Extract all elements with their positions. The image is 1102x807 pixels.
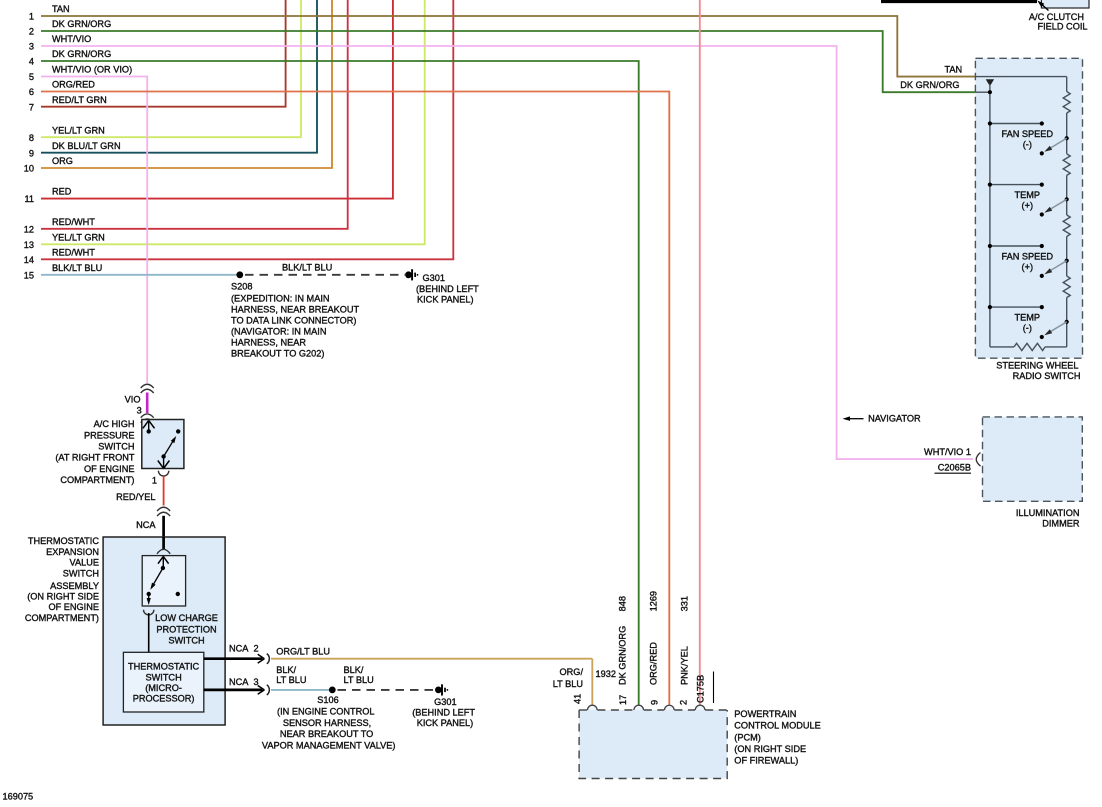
svg-text:YEL/LT GRN: YEL/LT GRN [52,232,105,242]
svg-text:FIELD COIL: FIELD COIL [1037,22,1087,32]
svg-text:169075: 169075 [3,792,34,802]
svg-text:DK GRN/ORG: DK GRN/ORG [52,19,111,29]
svg-text:RED/YEL: RED/YEL [116,492,155,502]
svg-text:NAVIGATOR: NAVIGATOR [868,413,921,423]
svg-text:KICK PANEL): KICK PANEL) [417,295,474,305]
svg-text:BLK/LT BLU: BLK/LT BLU [282,263,332,273]
svg-text:TAN: TAN [945,64,963,74]
svg-text:12: 12 [24,224,34,234]
svg-text:A/C CLUTCH: A/C CLUTCH [1029,12,1084,22]
svg-text:(MICRO-: (MICRO- [145,683,182,693]
svg-text:9: 9 [29,148,34,158]
svg-text:DK GRN/ORG: DK GRN/ORG [900,80,959,90]
svg-text:NCA: NCA [229,643,249,653]
svg-text:ORG: ORG [52,156,73,166]
svg-text:OF ENGINE: OF ENGINE [84,464,135,474]
svg-text:BREAKOUT TO G202): BREAKOUT TO G202) [231,349,324,359]
svg-text:1932: 1932 [596,669,616,679]
svg-text:THERMOSTATIC: THERMOSTATIC [128,662,199,672]
svg-text:(IN ENGINE CONTROL: (IN ENGINE CONTROL [277,706,375,716]
svg-text:3: 3 [29,42,34,52]
svg-text:3: 3 [137,405,142,415]
svg-text:NEAR BREAKOUT TO: NEAR BREAKOUT TO [280,729,373,739]
svg-text:(BEHIND LEFT: (BEHIND LEFT [412,708,475,718]
svg-text:PNK/YEL: PNK/YEL [680,646,690,685]
svg-text:RED/WHT: RED/WHT [52,247,95,257]
svg-text:13: 13 [24,240,34,250]
svg-text:331: 331 [680,596,690,611]
svg-text:(+): (+) [1022,200,1033,210]
svg-text:POWERTRAIN: POWERTRAIN [734,709,796,719]
svg-text:(ON RIGHT SIDE: (ON RIGHT SIDE [734,744,806,754]
svg-text:BLK/LT BLU: BLK/LT BLU [52,263,102,273]
svg-text:ASSEMBLY: ASSEMBLY [50,581,99,591]
svg-text:STEERING WHEEL: STEERING WHEEL [996,361,1078,371]
svg-text:RED/WHT: RED/WHT [52,217,95,227]
svg-text:RADIO SWITCH: RADIO SWITCH [1013,371,1081,381]
svg-text:COMPARTMENT): COMPARTMENT) [25,613,99,623]
svg-text:COMPARTMENT): COMPARTMENT) [60,475,134,485]
svg-text:FAN SPEED: FAN SPEED [1002,129,1054,139]
svg-text:CONTROL MODULE: CONTROL MODULE [734,721,820,731]
svg-text:2: 2 [679,700,689,705]
svg-text:S106: S106 [317,695,338,705]
svg-text:WHT/VIO 1: WHT/VIO 1 [924,447,971,457]
svg-text:ORG/LT BLU: ORG/LT BLU [276,646,330,656]
svg-text:KICK PANEL): KICK PANEL) [417,718,474,728]
svg-text:848: 848 [618,596,628,611]
svg-text:SWITCH: SWITCH [168,636,204,646]
svg-text:PROTECTION: PROTECTION [156,624,216,634]
svg-text:(EXPEDITION: IN MAIN: (EXPEDITION: IN MAIN [231,293,330,303]
svg-text:PROCESSOR): PROCESSOR) [133,694,195,704]
svg-text:6: 6 [29,87,34,97]
svg-text:3: 3 [254,677,259,687]
svg-text:(PCM): (PCM) [734,732,761,742]
svg-text:7: 7 [29,102,34,112]
svg-text:BLK/: BLK/ [344,665,364,675]
svg-text:WHT/VIO (OR VIO): WHT/VIO (OR VIO) [52,65,132,75]
svg-text:DIMMER: DIMMER [1042,519,1080,529]
svg-text:SENSOR HARNESS,: SENSOR HARNESS, [283,718,371,728]
svg-text:G301: G301 [434,697,456,707]
svg-text:C2065B: C2065B [938,463,971,473]
svg-text:9: 9 [650,700,660,705]
svg-text:8: 8 [29,133,34,143]
svg-text:ORG/RED: ORG/RED [649,642,659,685]
svg-text:G301: G301 [423,273,445,283]
svg-text:10: 10 [24,164,34,174]
svg-text:(ON RIGHT SIDE: (ON RIGHT SIDE [27,592,99,602]
svg-text:2: 2 [29,27,34,37]
svg-text:DK GRN/ORG: DK GRN/ORG [618,626,628,685]
svg-text:2: 2 [254,643,259,653]
svg-text:(BEHIND LEFT: (BEHIND LEFT [416,284,479,294]
svg-text:ILLUMINATION: ILLUMINATION [1016,508,1080,518]
svg-text:41: 41 [573,694,583,704]
svg-text:(AT RIGHT FRONT: (AT RIGHT FRONT [55,453,134,463]
svg-text:SWITCH: SWITCH [145,672,181,682]
svg-text:LT BLU: LT BLU [553,679,583,689]
svg-text:THERMOSTATIC: THERMOSTATIC [28,536,99,546]
svg-text:FAN SPEED: FAN SPEED [1002,251,1054,261]
svg-text:SWITCH: SWITCH [63,568,99,578]
svg-text:TO DATA LINK CONNECTOR): TO DATA LINK CONNECTOR) [231,315,356,325]
svg-text:HARNESS, NEAR BREAKOUT: HARNESS, NEAR BREAKOUT [231,304,360,314]
svg-text:TAN: TAN [52,4,70,14]
svg-text:SWITCH: SWITCH [98,442,134,452]
svg-text:OF FIREWALL): OF FIREWALL) [734,756,798,766]
svg-text:RED: RED [52,187,72,197]
svg-text:TEMP: TEMP [1015,190,1041,200]
svg-text:VAPOR MANAGEMENT VALVE): VAPOR MANAGEMENT VALVE) [262,741,396,751]
svg-text:14: 14 [24,255,34,265]
svg-text:NCA: NCA [136,520,156,530]
svg-text:11: 11 [24,194,34,204]
svg-text:(+): (+) [1022,262,1033,272]
svg-text:5: 5 [29,72,34,82]
svg-text:VALUE: VALUE [70,557,99,567]
svg-text:VIO: VIO [125,395,141,405]
svg-text:LT BLU: LT BLU [344,675,374,685]
svg-text:WHT/VIO: WHT/VIO [52,34,91,44]
svg-text:HARNESS, NEAR: HARNESS, NEAR [231,338,306,348]
svg-text:BLK/: BLK/ [276,665,296,675]
svg-text:A/C HIGH: A/C HIGH [94,419,135,429]
svg-text:LT BLU: LT BLU [276,675,306,685]
svg-text:DK BLU/LT GRN: DK BLU/LT GRN [52,141,121,151]
svg-text:15: 15 [24,270,34,280]
svg-text:RED/LT GRN: RED/LT GRN [52,95,107,105]
svg-text:(-): (-) [1023,139,1032,149]
svg-text:1: 1 [152,475,157,485]
svg-text:S208: S208 [231,281,252,291]
svg-text:ORG/: ORG/ [560,667,584,677]
svg-text:NCA: NCA [229,677,249,687]
svg-text:4: 4 [29,57,34,67]
svg-text:YEL/LT GRN: YEL/LT GRN [52,125,105,135]
svg-text:1: 1 [29,12,34,22]
svg-text:1269: 1269 [649,591,659,611]
svg-text:EXPANSION: EXPANSION [46,547,99,557]
svg-text:ORG/RED: ORG/RED [52,80,95,90]
svg-text:TEMP: TEMP [1015,313,1041,323]
svg-text:17: 17 [618,695,628,705]
svg-text:(NAVIGATOR: IN MAIN: (NAVIGATOR: IN MAIN [231,327,326,337]
svg-text:LOW CHARGE: LOW CHARGE [155,613,218,623]
svg-text:DK GRN/ORG: DK GRN/ORG [52,49,111,59]
svg-text:(-): (-) [1023,323,1032,333]
svg-text:OF ENGINE: OF ENGINE [48,602,99,612]
svg-text:C175B: C175B [696,675,706,703]
svg-text:PRESSURE: PRESSURE [84,430,135,440]
